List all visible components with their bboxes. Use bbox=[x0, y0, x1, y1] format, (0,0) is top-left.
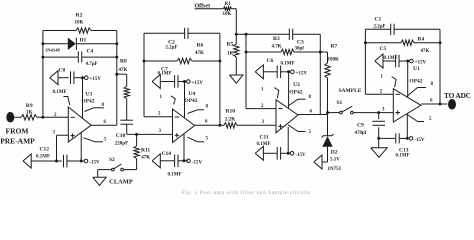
ground bypass C5 bbox=[375, 54, 383, 68]
pin 1 stub U4 bbox=[160, 95, 176, 105]
wire box3 right edge bbox=[319, 34, 321, 114]
wire R8 to C10 bbox=[126, 99, 128, 121]
svg-text:-15V: -15V bbox=[295, 153, 306, 158]
svg-text:0.1MF: 0.1MF bbox=[36, 155, 50, 160]
capacitor C8 0.1MF bbox=[53, 68, 85, 96]
svg-text:+15V: +15V bbox=[192, 81, 204, 86]
node sample/zener junction bbox=[326, 111, 329, 114]
pin 1 stub U3 bbox=[64, 97, 70, 106]
wire box1 left edge bbox=[42, 31, 44, 118]
svg-text:C3: C3 bbox=[297, 40, 304, 46]
svg-text:D2: D2 bbox=[331, 150, 338, 156]
pin 5 stub U1 bbox=[407, 114, 433, 122]
pin 2 label U4 bbox=[158, 112, 161, 117]
svg-text:1K: 1K bbox=[227, 52, 234, 57]
svg-text:2.2µF: 2.2µF bbox=[374, 25, 386, 30]
svg-text:R7: R7 bbox=[331, 44, 338, 50]
svg-text:OP42: OP42 bbox=[184, 98, 197, 104]
wire clamp node to U4 pin3 bbox=[127, 133, 173, 135]
svg-text:-15V: -15V bbox=[192, 160, 203, 165]
wire box4 left edge bbox=[364, 29, 366, 94]
wire box2 left edge bbox=[143, 33, 145, 117]
capacitor C7 0.1MF bbox=[158, 67, 187, 88]
op-amp U1 OP42 bbox=[393, 66, 423, 122]
pin 6 label U4 bbox=[205, 120, 208, 125]
svg-text:Fig. 5 Post-amp with filter a: Fig. 5 Post-amp with filter and Sample c… bbox=[182, 189, 311, 196]
pin 7 wire U1 supply bbox=[407, 61, 409, 97]
power +15V U4 bbox=[187, 80, 204, 86]
svg-text:+15V: +15V bbox=[90, 77, 102, 82]
power -15V U3 bbox=[84, 159, 100, 165]
wire U4 output bbox=[195, 124, 224, 126]
ground bypass C8 bbox=[50, 71, 58, 85]
svg-text:1K: 1K bbox=[26, 110, 33, 115]
op-amp U4 OP42 bbox=[173, 91, 198, 143]
svg-text:4.7µF: 4.7µF bbox=[86, 62, 98, 67]
svg-text:4.7K: 4.7K bbox=[272, 45, 282, 50]
pin 5 stub U3 bbox=[84, 137, 108, 142]
svg-text:30pf: 30pf bbox=[295, 47, 305, 52]
svg-text:C1: C1 bbox=[375, 17, 382, 23]
resistor R6 feedback branch bbox=[144, 43, 220, 64]
ground zener D2 bbox=[314, 155, 322, 169]
ground bypass C14 bbox=[152, 154, 160, 168]
wire U1 pin2 bbox=[365, 93, 393, 95]
caption Fig. 5 bbox=[182, 189, 311, 196]
pin 3 label U4 bbox=[159, 129, 162, 134]
wire U4 pin2 bbox=[144, 116, 173, 118]
svg-text:R8: R8 bbox=[120, 59, 127, 65]
svg-text:CLAMP: CLAMP bbox=[109, 179, 133, 186]
pin 6 label U3 bbox=[104, 120, 107, 125]
node U3 pin3 bypass bbox=[55, 160, 58, 163]
svg-text:47K: 47K bbox=[195, 51, 204, 56]
svg-text:R5: R5 bbox=[227, 42, 234, 48]
resistor R4 feedback branch bbox=[365, 37, 440, 55]
pin 3 label U3 bbox=[53, 131, 56, 136]
pin 7 wire U3 supply bbox=[82, 78, 84, 119]
svg-text:C4: C4 bbox=[87, 49, 94, 55]
pin 2 label U2 bbox=[261, 104, 264, 109]
svg-text:0.1MF: 0.1MF bbox=[53, 90, 67, 95]
capacitor C4 feedback branch bbox=[43, 49, 117, 68]
pin 5 stub U2 bbox=[288, 125, 312, 135]
node clamp junction bbox=[135, 133, 138, 136]
node U1 +15V bbox=[406, 60, 409, 63]
node box4 right R4 bbox=[439, 41, 442, 44]
capacitor C9 470pf bbox=[355, 113, 386, 139]
svg-text:R2: R2 bbox=[76, 13, 83, 19]
node junction input/feedback bbox=[41, 116, 44, 119]
power +15V U2 bbox=[291, 70, 308, 76]
pin 4 wire U1 supply bbox=[406, 114, 408, 139]
wire U3 pin3 to -15V line bbox=[57, 135, 69, 161]
pin 4 wire U3 supply bbox=[80, 132, 82, 161]
ground clamp bbox=[93, 170, 133, 186]
node box1 right R8 tap bbox=[115, 73, 118, 76]
pin 8 stub U2 bbox=[288, 95, 312, 106]
svg-text:C8: C8 bbox=[59, 68, 66, 74]
svg-text:47K: 47K bbox=[421, 49, 430, 54]
wire U3 output bbox=[91, 124, 117, 126]
svg-text:PRE-AMP: PRE-AMP bbox=[0, 137, 35, 146]
node box1 left D1 bbox=[41, 42, 44, 45]
pin 6 label U1 bbox=[430, 99, 433, 104]
svg-text:SAMPLE: SAMPLE bbox=[339, 88, 362, 94]
svg-text:C5: C5 bbox=[380, 46, 387, 52]
svg-text:0.1MF: 0.1MF bbox=[396, 154, 410, 159]
ground R5 bbox=[230, 75, 243, 83]
svg-text:47K: 47K bbox=[119, 68, 128, 73]
node box3 left top bbox=[245, 33, 248, 36]
pin 5 stub U4 bbox=[188, 137, 209, 142]
power +15V U3 bbox=[85, 76, 102, 82]
svg-text:R11: R11 bbox=[141, 148, 150, 154]
svg-text:C6: C6 bbox=[267, 58, 274, 64]
svg-text:C14: C14 bbox=[162, 151, 172, 157]
svg-text:0.1MF: 0.1MF bbox=[158, 72, 172, 77]
ground bypass C6 bbox=[255, 65, 263, 79]
pin 7 wire U2 supply bbox=[288, 72, 290, 108]
resistor R7 100K bbox=[325, 44, 339, 113]
wire box1 right edge bbox=[116, 31, 118, 126]
node box2 right R6 bbox=[218, 60, 221, 63]
ground bypass C7 bbox=[152, 75, 160, 89]
node box3 left R3 bbox=[245, 51, 248, 54]
op-amp U2 OP42 bbox=[276, 82, 303, 133]
node U4 -15V bbox=[183, 159, 186, 162]
svg-text:U1: U1 bbox=[413, 66, 420, 72]
wire box2 right edge bbox=[219, 33, 221, 125]
svg-text:100K: 100K bbox=[328, 58, 340, 63]
node box2 right output bbox=[218, 124, 221, 127]
wire offset to box3 bbox=[236, 33, 246, 35]
node box4 right output bbox=[439, 103, 442, 106]
capacitor C6 0.1MF bbox=[263, 58, 294, 78]
power -15V U1 bbox=[409, 137, 425, 143]
capacitor C12 0.1MF bbox=[31, 147, 84, 168]
node box1 left C4 bbox=[41, 56, 44, 59]
ground bypass C11 bbox=[255, 146, 263, 160]
resistor R3 feedback branch bbox=[246, 36, 320, 55]
wire R9 to U3 pin2 bbox=[37, 116, 68, 118]
svg-text:U2: U2 bbox=[293, 82, 300, 88]
svg-text:R10: R10 bbox=[226, 109, 236, 115]
node input terminal FROM PRE-AMP bbox=[0, 112, 35, 146]
pin 7 wire U4 supply bbox=[184, 82, 186, 119]
resistor R1 bbox=[223, 2, 232, 17]
svg-text:R9: R9 bbox=[26, 103, 33, 109]
node box1 right D1 bbox=[115, 42, 118, 45]
svg-text:OP42: OP42 bbox=[81, 99, 94, 105]
svg-text:C12: C12 bbox=[40, 147, 50, 153]
pin 8 stub U4 bbox=[188, 105, 209, 114]
wire U2 output bbox=[298, 114, 328, 116]
capacitor C11 0.1MF bbox=[257, 135, 291, 160]
svg-text:0.1MF: 0.1MF bbox=[384, 56, 398, 61]
pin 4 wire U4 supply bbox=[183, 134, 185, 161]
pin 1 stub U1 bbox=[381, 75, 397, 88]
switch S2 bbox=[98, 157, 137, 171]
svg-text:D1: D1 bbox=[80, 38, 87, 44]
pin 8 stub U1 bbox=[407, 82, 434, 97]
svg-text:S1: S1 bbox=[337, 100, 343, 106]
svg-text:0.1MF: 0.1MF bbox=[257, 142, 271, 147]
resistor R2 top feedback branch bbox=[43, 13, 117, 34]
switch S1 SAMPLE bbox=[328, 88, 362, 114]
svg-text:0.1MF: 0.1MF bbox=[281, 61, 295, 66]
ground bypass C12 bbox=[23, 154, 31, 168]
node box1 right C4 bbox=[115, 56, 118, 59]
svg-text:10K: 10K bbox=[75, 21, 84, 26]
op-amp U3 OP42 bbox=[68, 92, 95, 143]
svg-text:47K: 47K bbox=[141, 155, 150, 160]
resistor R10 bbox=[224, 109, 237, 129]
ground C9 bbox=[371, 138, 387, 157]
svg-text:R3: R3 bbox=[273, 36, 280, 42]
wire input to R9 bbox=[14, 116, 21, 118]
svg-text:1N751: 1N751 bbox=[328, 167, 342, 172]
svg-text:10K: 10K bbox=[223, 12, 232, 17]
svg-text:-15V: -15V bbox=[414, 138, 425, 143]
svg-text:1N4148: 1N4148 bbox=[45, 47, 61, 52]
node box2 left R6 bbox=[143, 60, 146, 63]
svg-text:C9: C9 bbox=[357, 123, 364, 129]
svg-text:R6: R6 bbox=[197, 43, 204, 49]
svg-text:OP42: OP42 bbox=[289, 89, 302, 95]
pin 1 stub U2 bbox=[261, 88, 279, 99]
wire R8 stub bbox=[117, 74, 127, 86]
wire U1 output bbox=[421, 103, 448, 105]
node U2 +15V bbox=[287, 70, 290, 73]
wire S1 to U1 pin3 bbox=[353, 112, 393, 114]
power -15V U2 bbox=[290, 152, 306, 158]
wire box4 right edge bbox=[439, 29, 441, 104]
pin 4 wire U2 supply bbox=[287, 127, 289, 153]
capacitor C2 2.2uF feedback branch bbox=[144, 28, 220, 51]
pin 2 label U1 bbox=[380, 90, 383, 95]
capacitor C13 0.1MF bbox=[379, 133, 410, 158]
pin 6 label U2 bbox=[310, 110, 313, 115]
resistor R11 bbox=[134, 134, 151, 169]
node box4 left R4 bbox=[364, 41, 367, 44]
svg-text:2.2µF: 2.2µF bbox=[165, 46, 177, 51]
resistor R9 bbox=[21, 103, 37, 120]
pin 3 label U2 bbox=[262, 120, 265, 125]
svg-text:R4: R4 bbox=[418, 37, 425, 43]
node U4 +15V bbox=[183, 80, 186, 83]
svg-text:C11: C11 bbox=[260, 135, 269, 141]
svg-text:U3: U3 bbox=[85, 92, 92, 98]
svg-text:220pF: 220pF bbox=[115, 142, 128, 147]
svg-text:+15V: +15V bbox=[415, 61, 427, 66]
svg-text:5.1V: 5.1V bbox=[330, 157, 340, 162]
capacitor C3 30pF feedback branch bbox=[246, 29, 320, 52]
svg-text:470pf: 470pf bbox=[355, 131, 367, 136]
wire U2 pin2 bbox=[246, 108, 276, 110]
wire R1 to R5 bbox=[232, 9, 237, 35]
resistor R8 bbox=[119, 59, 130, 99]
capacitor C10 220pF bbox=[115, 120, 133, 146]
svg-text:OP42: OP42 bbox=[409, 78, 422, 84]
power -15V U4 bbox=[187, 159, 203, 165]
svg-text:2.2K: 2.2K bbox=[225, 117, 235, 122]
node box3 right R7 tap bbox=[319, 51, 322, 54]
node U3 pin4 bypass bbox=[80, 160, 83, 163]
svg-text:R1: R1 bbox=[224, 2, 231, 7]
resistor R5 bbox=[227, 34, 240, 75]
node output terminal TO ADC bbox=[444, 91, 471, 110]
wire R10 to U2 pin3 bbox=[237, 124, 276, 126]
node C9 bottom bbox=[377, 137, 380, 140]
svg-text:0.1MF: 0.1MF bbox=[168, 173, 182, 178]
capacitor C1 2.2uF feedback branch bbox=[365, 17, 440, 35]
wire box3 left edge bbox=[245, 34, 247, 108]
node U1 -15V bbox=[406, 137, 409, 140]
node U2 -15V bbox=[287, 152, 290, 155]
zener diode D2 1N751 bbox=[322, 115, 342, 173]
diode D1 1N4148 feedback branch bbox=[43, 38, 117, 53]
svg-text:+15V: +15V bbox=[296, 71, 308, 76]
power +15V U1 bbox=[410, 59, 427, 65]
pin 2 label U3 bbox=[54, 113, 57, 118]
wire R7 stub bbox=[320, 51, 327, 53]
svg-text:TO ADC: TO ADC bbox=[444, 91, 471, 100]
node C9 tap bbox=[377, 111, 380, 114]
pin 3 label U1 bbox=[382, 108, 385, 113]
node Offset input bbox=[195, 4, 224, 10]
svg-text:C10: C10 bbox=[116, 133, 126, 139]
svg-text:FROM: FROM bbox=[6, 127, 29, 136]
node U3 +15V bbox=[81, 76, 84, 79]
capacitor C5 0.1MF bbox=[380, 46, 410, 67]
svg-text:S2: S2 bbox=[109, 157, 115, 163]
capacitor C14 0.1MF bbox=[160, 151, 188, 178]
svg-text:-15V: -15V bbox=[89, 161, 100, 166]
node R5 top bbox=[235, 33, 238, 36]
svg-text:U4: U4 bbox=[188, 91, 195, 97]
pin 8 stub U3 bbox=[85, 103, 105, 112]
